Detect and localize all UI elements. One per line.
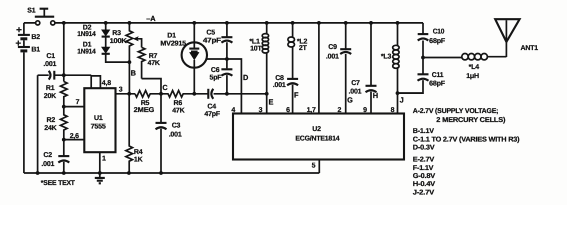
svg-text:E: E: [269, 97, 274, 106]
svg-text:D1: D1: [83, 41, 92, 48]
pin 4 label: [231, 107, 235, 114]
node junction varactor bottom / pin3 wire: [192, 92, 196, 96]
node junction C6 bottom / pin3 wire: [225, 92, 229, 96]
svg-text:C6: C6: [211, 67, 220, 74]
capacitor C5: [203, 23, 233, 68]
resistor R2: [44, 107, 67, 140]
svg-text:B1: B1: [31, 46, 40, 53]
svg-text:2,6: 2,6: [70, 133, 79, 140]
svg-text:B-1.1V: B-1.1V: [413, 128, 435, 135]
wire U1 pin 7: [64, 99, 85, 107]
wire U1 pin 3 output: [116, 87, 136, 94]
svg-text:9: 9: [363, 107, 367, 114]
wire top supply rail: [24, 22, 423, 24]
node B junction: [127, 60, 131, 64]
battery B2: [16, 23, 40, 46]
svg-text:100K: 100K: [110, 38, 127, 45]
pin 9 label: [363, 107, 367, 114]
svg-text:E-2.7V: E-2.7V: [413, 157, 435, 164]
wire node J to C10/C11 column: [398, 92, 424, 94]
node D label: [243, 73, 249, 82]
node junction diode column on top rail: [104, 21, 108, 25]
svg-text:47K: 47K: [172, 108, 184, 115]
svg-text:B2: B2: [31, 34, 40, 41]
svg-text:C-1.1 TO 2.7V (VARIES WITH R3): C-1.1 TO 2.7V (VARIES WITH R3): [413, 136, 520, 144]
svg-text:10T: 10T: [250, 45, 262, 52]
svg-text:C5: C5: [206, 30, 215, 37]
node junction C7 top rail: [369, 21, 373, 25]
svg-text:C1: C1: [46, 53, 55, 60]
wire switch column down: [63, 23, 65, 82]
wire U1 pins 2,6: [64, 133, 85, 140]
wire U2 pins 1,7 supply stub: [318, 23, 320, 114]
battery B1: [16, 41, 41, 174]
svg-text:.001: .001: [41, 161, 54, 168]
pin 1,7 label: [307, 107, 316, 114]
svg-text:1μH: 1μH: [466, 73, 479, 80]
wire C1 row (left branch down): [37, 75, 39, 173]
svg-text:1N914: 1N914: [77, 49, 95, 56]
node F label: [294, 91, 299, 100]
svg-text:5pF: 5pF: [210, 74, 223, 81]
wire diode column to node B: [106, 54, 130, 62]
op-amp U2 ECG/NTE1814 box: [233, 114, 404, 160]
varactor D1 MV2815: [160, 23, 207, 94]
capacitor C4: [194, 89, 227, 118]
svg-text:F: F: [294, 91, 299, 100]
svg-text:G-0.8V: G-0.8V: [413, 173, 436, 180]
svg-text:C2: C2: [43, 152, 52, 159]
svg-text:H-0.4V: H-0.4V: [413, 181, 436, 188]
node junction C1/switch column: [62, 73, 66, 77]
resistor R5: [134, 91, 161, 115]
svg-text:6: 6: [286, 107, 290, 114]
svg-text:D-0.3V: D-0.3V: [413, 145, 435, 152]
svg-text:D: D: [243, 73, 249, 82]
node junction pins 1,7 top rail: [317, 21, 321, 25]
svg-text:8: 8: [391, 107, 395, 114]
capacitor C9: [326, 23, 351, 114]
node J junction: [396, 91, 400, 95]
svg-text:G: G: [347, 95, 353, 104]
svg-text:C10: C10: [433, 29, 445, 36]
svg-text:F-1.1V: F-1.1V: [413, 165, 434, 172]
node junction on bottom rail (U1 pin1 / ground): [98, 171, 102, 175]
node H label: [373, 91, 378, 100]
svg-text:C: C: [162, 83, 168, 92]
node junction on bottom rail (C2 branch): [62, 171, 66, 175]
node C label: [162, 83, 168, 92]
node A label: [146, 14, 156, 23]
svg-text:3: 3: [259, 107, 263, 114]
pin 3 label: [259, 107, 263, 114]
svg-text:D1: D1: [167, 33, 176, 40]
wire pin3 row to node E: [227, 93, 267, 95]
svg-text:R1: R1: [46, 85, 55, 92]
label *SEE TEXT: [41, 180, 76, 187]
svg-text:1,7: 1,7: [307, 107, 316, 114]
svg-text:.001: .001: [43, 61, 56, 68]
pin 4,8 label: [102, 80, 111, 87]
svg-text:R5: R5: [141, 100, 150, 107]
wire node B down to pin3 wire: [128, 62, 130, 94]
wire U2 pin 3 stub: [266, 94, 268, 114]
svg-text:ECG/NTE1814: ECG/NTE1814: [295, 134, 339, 142]
svg-text:S1: S1: [27, 8, 35, 15]
node junction L3 top rail: [396, 21, 400, 25]
svg-text:24K: 24K: [44, 125, 56, 132]
node E label: [269, 97, 274, 106]
svg-text:ANT1: ANT1: [521, 45, 539, 52]
svg-text:C3: C3: [172, 122, 181, 129]
node junction on bottom rail (C3 branch): [159, 171, 163, 175]
capacitor C7: [349, 23, 377, 114]
svg-text:U2: U2: [312, 126, 321, 133]
node C junction: [159, 92, 163, 96]
wire U2 pin 5 stub: [312, 160, 320, 174]
svg-text:20K: 20K: [44, 93, 56, 100]
svg-text:47pF: 47pF: [203, 37, 222, 44]
node junction R1/R2 pin7: [62, 105, 66, 109]
svg-text:.001: .001: [326, 53, 339, 60]
capacitor C10: [418, 29, 446, 58]
node J label: [400, 95, 404, 104]
svg-text:5: 5: [312, 162, 316, 169]
wire C1 junction to U1 pins 4,8: [64, 75, 101, 88]
svg-text:C8: C8: [275, 75, 284, 82]
R3 wiper arrow to R7: [133, 37, 141, 48]
node G label: [347, 95, 353, 104]
svg-text:B: B: [131, 69, 136, 78]
svg-text:R3: R3: [112, 30, 121, 37]
diode D1 1N914: [77, 37, 110, 56]
svg-text:*SEE TEXT: *SEE TEXT: [41, 180, 76, 187]
svg-text:7555: 7555: [91, 124, 106, 131]
svg-text:MV2915: MV2915: [160, 40, 186, 47]
svg-text:.001: .001: [169, 132, 182, 139]
svg-text:2T: 2T: [299, 45, 308, 52]
svg-text:47K: 47K: [148, 60, 160, 67]
inductor L4: [423, 54, 506, 80]
diode D2 1N914: [77, 23, 110, 38]
node junction C5 column top rail: [225, 21, 229, 25]
node E junction: [265, 92, 269, 96]
resistor R1: [44, 82, 67, 108]
capacitor C6: [210, 67, 233, 94]
node B label: [131, 69, 136, 78]
node junction R2/C2 pins 2,6: [62, 138, 66, 142]
op-amp U1 timer box: [84, 88, 115, 152]
node junction R3 top rail: [127, 21, 131, 25]
svg-text:A-2.7V (SUPPLY VOLTAGE;: A-2.7V (SUPPLY VOLTAGE;: [413, 107, 499, 115]
svg-text:68pF: 68pF: [429, 38, 446, 45]
node junction varactor top rail: [192, 21, 196, 25]
svg-text:C9: C9: [328, 44, 337, 51]
svg-text:–A: –A: [146, 14, 156, 23]
capacitor C11: [398, 58, 446, 94]
svg-text:R4: R4: [134, 149, 143, 156]
svg-text:2 MERCURY CELLS): 2 MERCURY CELLS): [436, 116, 505, 124]
svg-text:J: J: [400, 95, 404, 104]
svg-text:*L4: *L4: [469, 64, 480, 71]
svg-text:68pF: 68pF: [429, 80, 446, 87]
node junction varactor tap / C5 column: [225, 57, 229, 61]
capacitor C1: [38, 53, 64, 80]
capacitor C3: [156, 94, 182, 173]
svg-text:C7: C7: [351, 80, 360, 87]
inductor L2: [288, 23, 308, 78]
svg-text:*L1: *L1: [249, 38, 260, 45]
wire top rail right corner down: [422, 23, 424, 34]
resistor R6: [161, 91, 194, 115]
node junction on bottom rail (R4 branch): [127, 171, 131, 175]
wire U1 pin 1 to ground rail: [100, 152, 106, 173]
node junction B column / pin3 wire: [127, 92, 131, 96]
svg-text:4,8: 4,8: [102, 80, 111, 87]
pin 2 label: [338, 107, 342, 114]
svg-text:3: 3: [119, 87, 123, 94]
resistor R3 potentiometer: [110, 23, 133, 62]
node junction C9 top rail: [344, 21, 348, 25]
svg-text:C11: C11: [432, 72, 444, 79]
svg-text:U1: U1: [94, 115, 103, 122]
pin 6 label: [286, 107, 290, 114]
node junction on bottom rail (C1 branch): [36, 171, 40, 175]
node junction C10/C11 L4 tap: [421, 56, 425, 60]
node junction L1 top rail: [265, 21, 269, 25]
svg-text:C4: C4: [207, 104, 216, 111]
ground: [95, 173, 105, 183]
wire bottom ground rail: [24, 172, 319, 174]
svg-text:1: 1: [102, 155, 106, 162]
antenna ANT1: [495, 19, 538, 57]
svg-text:7: 7: [76, 99, 80, 106]
node junction switch column on top rail: [62, 21, 66, 25]
capacitor C2: [41, 140, 69, 173]
voltage list annotations: [413, 107, 520, 197]
resistor R7: [138, 47, 160, 78]
svg-text:1N914: 1N914: [77, 31, 95, 38]
svg-text:H: H: [373, 91, 378, 100]
svg-text:1K: 1K: [134, 156, 143, 163]
inductor L1: [249, 23, 268, 94]
inductor L3: [381, 23, 399, 114]
svg-text:R6: R6: [174, 100, 183, 107]
switch S1: [27, 8, 55, 25]
svg-text:R2: R2: [47, 117, 56, 124]
svg-text:*L3: *L3: [381, 53, 392, 60]
capacitor C8: [273, 75, 298, 114]
svg-text:2: 2: [338, 107, 342, 114]
svg-text:.001: .001: [349, 88, 362, 95]
svg-text:.001: .001: [273, 82, 286, 89]
svg-text:4: 4: [231, 107, 235, 114]
resistor R4: [126, 94, 143, 173]
wire R7 bottom to node C: [142, 79, 161, 94]
wire varactor cathode tap to node D: [206, 59, 242, 114]
svg-text:2MEG: 2MEG: [134, 107, 155, 114]
node junction L2 top rail: [291, 21, 295, 25]
svg-text:47pF: 47pF: [204, 111, 220, 118]
svg-text:J-2.7V: J-2.7V: [413, 190, 435, 197]
pin 8 label: [391, 107, 395, 114]
